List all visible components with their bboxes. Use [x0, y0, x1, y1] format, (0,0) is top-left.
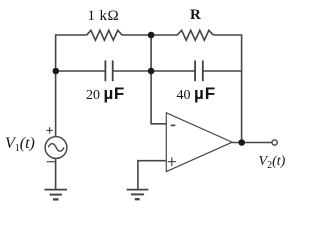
wire: non-inverting input to ground — [138, 161, 166, 190]
node B junction dot (left cap row) — [53, 68, 60, 75]
source V1 sine wave — [48, 144, 64, 152]
source plus polarity — [46, 127, 52, 133]
label V1(t) — [5, 135, 35, 153]
label V2(t) — [259, 154, 286, 170]
capacitor C2 40 uF plates — [195, 60, 203, 81]
resistor R2 R zigzag — [177, 30, 213, 40]
label 40 uF — [177, 84, 217, 104]
output terminal open circle — [272, 140, 277, 145]
ground (source) — [44, 190, 67, 200]
capacitor C1 20 uF plates — [105, 60, 112, 81]
wire: top middle segment R1 to node A — [122, 34, 177, 36]
op-amp plus input marker — [168, 157, 176, 166]
wire: middle vertical node A to node D to inverting input — [151, 35, 166, 124]
wire: C1 to node D to C2 — [113, 70, 195, 72]
resistor R1 1 kOhm zigzag — [87, 30, 123, 40]
label 20 uF — [86, 84, 125, 104]
node D junction dot (middle cap row) — [148, 68, 155, 75]
source minus polarity — [47, 161, 55, 163]
wire: cap row left (node B to C1) — [56, 70, 106, 72]
wire: C2 to right vertical — [203, 70, 242, 72]
source V1 circle — [45, 137, 67, 159]
label R — [190, 7, 201, 24]
wire: op-amp output to terminal — [232, 142, 272, 144]
op-amp U1 triangle — [166, 113, 232, 172]
wire: top right segment and right vertical down to output node — [213, 35, 241, 143]
op-amp minus input marker — [171, 124, 176, 126]
wire: source bottom to ground — [55, 159, 57, 190]
ground (op-amp non-inverting) — [127, 190, 149, 200]
node A junction dot (top middle) — [148, 32, 155, 39]
output node junction dot — [238, 139, 245, 146]
label 1 kOhm — [88, 8, 120, 25]
wire: left vertical from top-left corner to source top — [56, 35, 87, 137]
